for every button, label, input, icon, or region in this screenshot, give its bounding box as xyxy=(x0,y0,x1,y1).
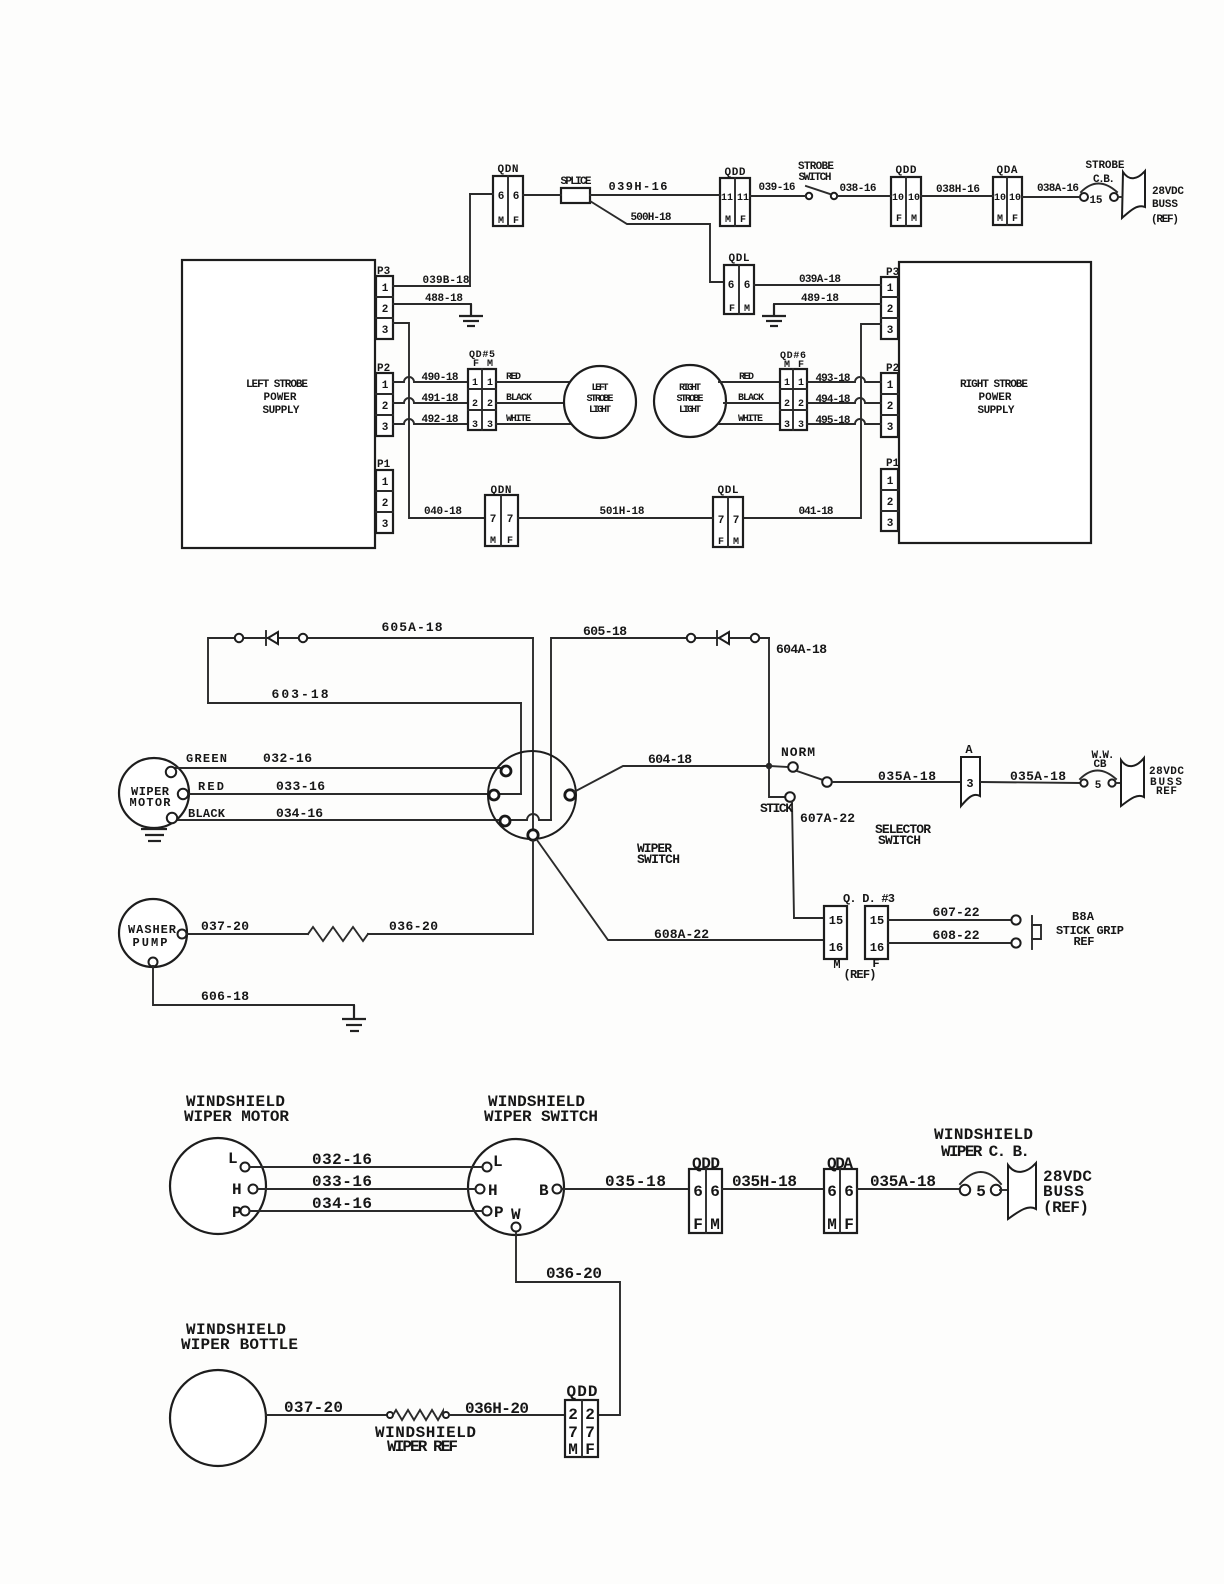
svg-text:QDA: QDA xyxy=(827,1155,853,1173)
svg-text:P3: P3 xyxy=(886,267,900,279)
svg-text:2: 2 xyxy=(887,304,894,316)
svg-text:P2: P2 xyxy=(377,363,390,375)
svg-text:3: 3 xyxy=(382,325,389,337)
svg-text:7: 7 xyxy=(718,515,725,527)
svg-text:501H-18: 501H-18 xyxy=(600,506,645,518)
svg-text:035A-18: 035A-18 xyxy=(870,1173,936,1191)
svg-text:492-18: 492-18 xyxy=(422,414,459,426)
svg-text:033-16: 033-16 xyxy=(312,1173,372,1191)
svg-text:608-22: 608-22 xyxy=(933,928,980,943)
svg-text:1: 1 xyxy=(382,380,389,392)
svg-text:L: L xyxy=(493,1153,503,1171)
svg-text:7: 7 xyxy=(507,514,514,526)
svg-text:490-18: 490-18 xyxy=(422,372,459,384)
svg-text:WIPER BOTTLE: WIPER BOTTLE xyxy=(181,1336,298,1354)
svg-text:F: F xyxy=(896,214,902,225)
svg-text:7: 7 xyxy=(585,1424,595,1442)
svg-text:STROBE: STROBE xyxy=(587,394,614,405)
svg-text:LEFT: LEFT xyxy=(592,383,609,394)
svg-text:10: 10 xyxy=(908,193,920,204)
svg-text:1: 1 xyxy=(798,378,804,389)
svg-text:M: M xyxy=(827,1216,837,1234)
svg-text:M: M xyxy=(498,216,504,227)
svg-text:M: M xyxy=(710,1216,720,1234)
svg-text:QDL: QDL xyxy=(718,485,739,497)
svg-text:1: 1 xyxy=(887,283,894,295)
svg-text:035-18: 035-18 xyxy=(605,1173,666,1191)
svg-text:1: 1 xyxy=(382,283,389,295)
svg-text:7: 7 xyxy=(490,514,497,526)
svg-text:28VDC: 28VDC xyxy=(1152,186,1184,198)
svg-text:RIGHT: RIGHT xyxy=(679,383,701,394)
svg-text:M: M xyxy=(490,536,496,547)
svg-text:6: 6 xyxy=(844,1183,854,1201)
svg-text:M: M xyxy=(568,1441,578,1459)
svg-text:M: M xyxy=(784,360,790,371)
svg-text:CB: CB xyxy=(1094,759,1107,771)
svg-text:L: L xyxy=(228,1150,238,1168)
svg-text:034-16: 034-16 xyxy=(276,806,323,821)
svg-text:F: F xyxy=(513,216,519,227)
svg-text:QDD: QDD xyxy=(725,167,746,179)
svg-text:3: 3 xyxy=(784,420,790,431)
svg-text:038A-16: 038A-16 xyxy=(1037,183,1079,195)
svg-text:WIPER SWITCH: WIPER SWITCH xyxy=(484,1108,598,1126)
svg-text:605-18: 605-18 xyxy=(583,624,627,639)
svg-text:1: 1 xyxy=(382,477,389,489)
svg-text:033-16: 033-16 xyxy=(276,779,325,794)
svg-text:A: A xyxy=(965,743,973,757)
svg-text:F: F xyxy=(585,1441,595,1459)
svg-text:BLACK: BLACK xyxy=(738,393,764,404)
svg-text:2: 2 xyxy=(382,401,389,413)
svg-text:(REF): (REF) xyxy=(1151,214,1179,226)
svg-text:040-18: 040-18 xyxy=(424,506,462,518)
svg-text:1: 1 xyxy=(887,380,894,392)
svg-text:032-16: 032-16 xyxy=(312,1151,372,1169)
svg-text:MOTOR: MOTOR xyxy=(130,796,172,810)
svg-text:039B-18: 039B-18 xyxy=(423,275,470,287)
svg-text:M: M xyxy=(733,537,739,548)
svg-text:WHITE: WHITE xyxy=(506,414,531,425)
svg-text:16: 16 xyxy=(829,941,843,955)
svg-text:7: 7 xyxy=(568,1424,578,1442)
svg-text:B: B xyxy=(539,1182,549,1200)
svg-text:QDN: QDN xyxy=(491,485,512,497)
svg-text:3: 3 xyxy=(487,420,493,431)
svg-text:606-18: 606-18 xyxy=(201,989,249,1004)
svg-text:037-20: 037-20 xyxy=(201,919,249,934)
svg-text:493-18: 493-18 xyxy=(816,373,851,385)
svg-text:QDL: QDL xyxy=(729,253,750,265)
svg-text:15: 15 xyxy=(870,914,884,928)
svg-text:WIPER MOTOR: WIPER MOTOR xyxy=(184,1108,289,1126)
svg-text:605A-18: 605A-18 xyxy=(382,620,443,635)
svg-text:1: 1 xyxy=(472,378,478,389)
svg-text:039H-16: 039H-16 xyxy=(609,180,668,194)
svg-text:WIPER C. B.: WIPER C. B. xyxy=(941,1143,1030,1161)
svg-text:QDN: QDN xyxy=(498,164,519,176)
svg-text:6: 6 xyxy=(513,191,520,203)
svg-text:3: 3 xyxy=(887,325,894,337)
svg-text:F: F xyxy=(1012,214,1018,225)
svg-text:P: P xyxy=(494,1204,504,1222)
svg-text:WASHER: WASHER xyxy=(128,923,177,937)
svg-text:3: 3 xyxy=(382,422,389,434)
svg-text:H: H xyxy=(488,1182,498,1200)
svg-text:6: 6 xyxy=(693,1183,703,1201)
svg-text:038-16: 038-16 xyxy=(840,183,877,195)
svg-text:2: 2 xyxy=(487,399,493,410)
svg-text:6: 6 xyxy=(728,280,735,292)
svg-text:11: 11 xyxy=(737,193,749,204)
svg-text:608A-22: 608A-22 xyxy=(654,927,709,942)
svg-text:F: F xyxy=(718,537,724,548)
svg-text:037-20: 037-20 xyxy=(284,1399,343,1417)
svg-text:(REF): (REF) xyxy=(1043,1199,1089,1217)
svg-text:B8A: B8A xyxy=(1072,910,1095,924)
svg-text:GREEN: GREEN xyxy=(186,752,227,766)
svg-text:(REF): (REF) xyxy=(844,968,877,982)
svg-text:Q. D. #3: Q. D. #3 xyxy=(843,892,895,906)
svg-text:10: 10 xyxy=(892,193,904,204)
svg-text:6: 6 xyxy=(744,280,751,292)
svg-text:2: 2 xyxy=(784,399,790,410)
svg-text:5: 5 xyxy=(976,1183,986,1201)
svg-text:POWER: POWER xyxy=(979,392,1012,404)
svg-text:P1: P1 xyxy=(886,458,900,470)
svg-text:3: 3 xyxy=(966,777,973,791)
svg-text:WIPER REF: WIPER REF xyxy=(387,1438,458,1456)
svg-text:STROBE: STROBE xyxy=(677,394,704,405)
svg-text:6: 6 xyxy=(827,1183,837,1201)
svg-text:2: 2 xyxy=(798,399,804,410)
svg-text:QDD: QDD xyxy=(567,1383,598,1401)
svg-text:032-16: 032-16 xyxy=(263,751,312,766)
svg-text:035A-18: 035A-18 xyxy=(1010,769,1066,784)
svg-text:SUPPLY: SUPPLY xyxy=(263,405,300,417)
svg-text:H: H xyxy=(232,1181,242,1199)
svg-text:10: 10 xyxy=(994,193,1006,204)
svg-text:6: 6 xyxy=(710,1183,720,1201)
svg-text:1: 1 xyxy=(784,378,790,389)
svg-text:P: P xyxy=(232,1204,242,1222)
svg-text:LEFT STROBE: LEFT STROBE xyxy=(246,379,308,391)
svg-text:035H-18: 035H-18 xyxy=(732,1173,797,1191)
svg-text:10: 10 xyxy=(1009,193,1021,204)
svg-text:16: 16 xyxy=(870,941,884,955)
svg-text:6: 6 xyxy=(498,191,505,203)
svg-text:W: W xyxy=(511,1206,521,1224)
svg-text:BLACK: BLACK xyxy=(188,807,226,821)
svg-text:3: 3 xyxy=(887,422,894,434)
svg-text:STICK: STICK xyxy=(760,801,793,816)
svg-text:2: 2 xyxy=(472,399,478,410)
svg-text:QDD: QDD xyxy=(896,165,917,177)
svg-text:WINDSHIELD: WINDSHIELD xyxy=(934,1126,1033,1144)
svg-text:034-16: 034-16 xyxy=(312,1195,372,1213)
svg-text:038H-16: 038H-16 xyxy=(936,184,980,196)
svg-text:041-18: 041-18 xyxy=(799,506,834,518)
svg-text:M: M xyxy=(725,215,731,226)
svg-text:P2: P2 xyxy=(886,363,899,375)
svg-text:C.B.: C.B. xyxy=(1093,174,1115,186)
svg-text:036-20: 036-20 xyxy=(389,919,438,934)
svg-text:2: 2 xyxy=(887,401,894,413)
svg-text:495-18: 495-18 xyxy=(816,415,851,427)
svg-text:607-22: 607-22 xyxy=(933,905,980,920)
svg-text:F: F xyxy=(798,360,804,371)
svg-text:M: M xyxy=(997,214,1003,225)
svg-text:BUSS: BUSS xyxy=(1152,199,1178,211)
svg-text:QDA: QDA xyxy=(997,165,1018,177)
svg-text:604A-18: 604A-18 xyxy=(776,642,827,657)
svg-text:REF: REF xyxy=(1156,786,1177,798)
svg-text:REF: REF xyxy=(1074,935,1095,949)
svg-text:15: 15 xyxy=(1090,195,1103,207)
svg-text:15: 15 xyxy=(829,914,843,928)
svg-text:STROBE: STROBE xyxy=(1086,160,1125,172)
svg-text:WHITE: WHITE xyxy=(738,414,763,425)
svg-text:F: F xyxy=(740,215,746,226)
svg-text:RED: RED xyxy=(198,780,224,794)
svg-text:11: 11 xyxy=(721,193,733,204)
svg-text:P3: P3 xyxy=(377,266,391,278)
svg-text:3: 3 xyxy=(382,519,389,531)
svg-text:2: 2 xyxy=(382,498,389,510)
svg-text:1: 1 xyxy=(487,378,493,389)
svg-text:491-18: 491-18 xyxy=(422,393,459,405)
svg-text:QDD: QDD xyxy=(692,1155,720,1173)
svg-text:NORM: NORM xyxy=(781,745,815,760)
svg-text:RED: RED xyxy=(506,372,521,383)
svg-text:M: M xyxy=(833,958,840,972)
svg-text:F: F xyxy=(507,536,513,547)
svg-text:607A-22: 607A-22 xyxy=(800,811,855,826)
svg-text:3: 3 xyxy=(472,420,478,431)
svg-text:SWITCH: SWITCH xyxy=(637,852,680,867)
svg-text:SWITCH: SWITCH xyxy=(878,833,921,848)
svg-text:SWITCH: SWITCH xyxy=(799,172,832,184)
svg-text:M: M xyxy=(911,214,917,225)
svg-text:POWER: POWER xyxy=(264,392,297,404)
svg-text:489-18: 489-18 xyxy=(801,293,839,305)
svg-text:RED: RED xyxy=(739,372,754,383)
svg-text:039-16: 039-16 xyxy=(759,182,796,194)
svg-text:494-18: 494-18 xyxy=(816,394,851,406)
svg-text:BLACK: BLACK xyxy=(506,393,532,404)
svg-text:M: M xyxy=(487,359,493,370)
svg-text:604-18: 604-18 xyxy=(648,752,692,767)
svg-text:3: 3 xyxy=(798,420,804,431)
svg-text:2: 2 xyxy=(585,1406,595,1424)
svg-text:036-20: 036-20 xyxy=(546,1265,602,1283)
svg-text:488-18: 488-18 xyxy=(425,293,463,305)
svg-text:F: F xyxy=(693,1216,703,1234)
svg-text:2: 2 xyxy=(887,497,894,509)
svg-text:P1: P1 xyxy=(377,459,391,471)
svg-text:2: 2 xyxy=(568,1406,578,1424)
svg-text:7: 7 xyxy=(733,515,740,527)
svg-text:LIGHT: LIGHT xyxy=(679,405,701,416)
svg-text:F: F xyxy=(729,304,735,315)
svg-text:500H-18: 500H-18 xyxy=(631,212,672,224)
svg-text:LIGHT: LIGHT xyxy=(589,405,611,416)
svg-text:3: 3 xyxy=(887,518,894,530)
svg-text:SUPPLY: SUPPLY xyxy=(978,405,1015,417)
svg-text:5: 5 xyxy=(1095,780,1102,792)
svg-text:RIGHT STROBE: RIGHT STROBE xyxy=(960,379,1028,391)
svg-text:1: 1 xyxy=(887,476,894,488)
svg-text:M: M xyxy=(744,304,750,315)
svg-text:039A-18: 039A-18 xyxy=(799,274,841,286)
svg-text:035A-18: 035A-18 xyxy=(878,769,936,784)
svg-text:F: F xyxy=(844,1216,854,1234)
svg-text:F: F xyxy=(473,359,479,370)
svg-text:2: 2 xyxy=(382,304,389,316)
svg-text:SPLICE: SPLICE xyxy=(561,176,592,188)
